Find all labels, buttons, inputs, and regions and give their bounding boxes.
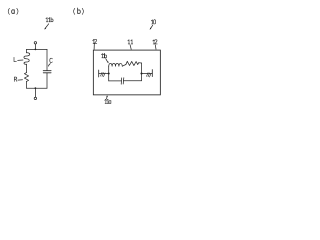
leader for 11 — [130, 45, 131, 50]
resistor zigzag (fig b) — [126, 61, 139, 65]
wire bottom branch right rise — [141, 74, 143, 81]
leader for 12 right — [154, 45, 157, 49]
hatch marks right electrode — [147, 73, 149, 77]
wire right riser top — [46, 49, 48, 70]
node junction dot bottom — [35, 87, 37, 89]
wire terminal to top node — [34, 44, 36, 49]
wire top rail — [27, 48, 48, 50]
wire bottom node to terminal — [34, 88, 36, 97]
electrode bar left (12) — [98, 70, 100, 77]
label 10 — [151, 20, 155, 24]
wire resistor to right riser — [139, 62, 142, 64]
leader dash for L — [18, 59, 23, 61]
wire bottom branch left run — [109, 80, 122, 82]
label 11b (fig b) — [101, 53, 106, 57]
label 11 — [128, 40, 133, 44]
wire bottom branch left drop — [108, 74, 110, 81]
leader arrow for 10 — [150, 25, 152, 28]
figure label (a) — [8, 8, 18, 14]
wire L to R — [26, 64, 28, 72]
node junction dot left — [108, 72, 110, 74]
capacitor C plates (fig a) — [43, 70, 51, 72]
wire left electrode to node — [99, 73, 109, 75]
leader arrow for 11a — [106, 97, 108, 99]
inductor L coil (fig a) — [24, 53, 30, 65]
leader for 12 left — [93, 44, 95, 49]
label 12 right — [153, 40, 157, 44]
electrode bar right (12) — [151, 70, 153, 77]
wire left riser (fig b) — [108, 66, 110, 73]
leader dash for C — [48, 64, 50, 67]
inductor 11b coil (fig b) — [109, 63, 123, 66]
label 11b (fig a) — [46, 17, 53, 21]
node junction dot right — [140, 72, 142, 74]
label R — [14, 77, 17, 81]
leader dash for R — [18, 79, 23, 81]
leader arrow for 11b (fig b) — [106, 59, 108, 62]
wire right riser bottom — [46, 73, 48, 88]
resistor R zigzag (fig a) — [24, 73, 28, 82]
label L — [14, 57, 16, 61]
leader arrow for 11b (fig a) — [45, 24, 49, 29]
wire right node to electrode — [142, 73, 153, 75]
wire right riser (fig b) — [141, 63, 143, 74]
label 11a — [105, 99, 111, 103]
wire coil to resistor — [122, 65, 126, 67]
hatch marks left electrode — [101, 72, 103, 76]
wire R to bottom rail — [26, 81, 28, 88]
wire bottom branch right run — [123, 80, 141, 82]
capacitor plates (fig b) — [120, 78, 123, 84]
top terminal circle — [34, 42, 36, 44]
figure label (b) — [74, 8, 84, 14]
label 12 left — [93, 39, 97, 43]
package body 10 outline — [93, 50, 160, 95]
wire bottom rail — [27, 87, 48, 89]
node junction dot top — [35, 49, 37, 51]
wire left riser — [26, 49, 28, 52]
bottom terminal circle — [34, 97, 36, 99]
label C — [50, 58, 53, 62]
